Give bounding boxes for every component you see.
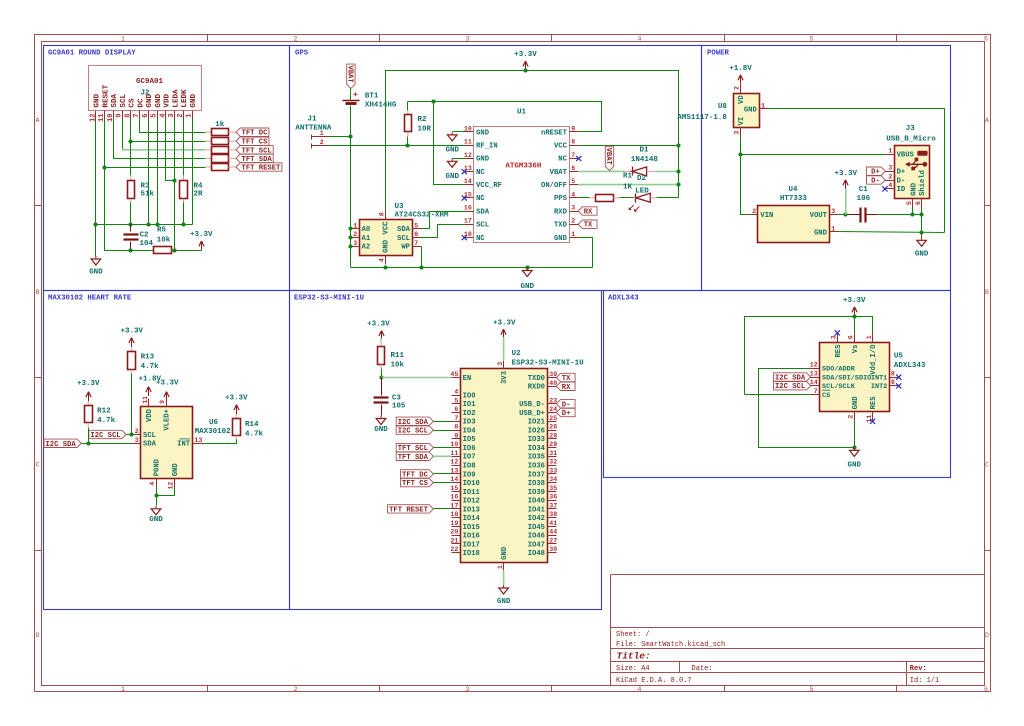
svg-text:12: 12 bbox=[89, 113, 97, 122]
svg-text:VDD: VDD bbox=[164, 93, 172, 107]
svg-text:IO11: IO11 bbox=[463, 489, 481, 497]
svg-text:AMS1117-1.8: AMS1117-1.8 bbox=[677, 114, 727, 122]
svg-text:29: 29 bbox=[549, 441, 557, 448]
svg-text:30: 30 bbox=[549, 546, 557, 553]
svg-text:J1: J1 bbox=[307, 116, 317, 124]
svg-text:ANTTENNA: ANTTENNA bbox=[295, 125, 332, 133]
wire VDD pin4 to LEDA net bbox=[166, 119, 175, 181]
wire U3 WP to gnd rail bbox=[421, 247, 423, 268]
svg-text:R5: R5 bbox=[157, 227, 167, 235]
svg-text:R2: R2 bbox=[418, 116, 428, 124]
svg-text:SDA: SDA bbox=[397, 226, 411, 234]
svg-text:15: 15 bbox=[450, 485, 458, 492]
svg-text:R12: R12 bbox=[97, 407, 111, 415]
svg-text:106: 106 bbox=[857, 195, 871, 203]
svg-text:Sheet: /: Sheet: / bbox=[616, 631, 650, 639]
section box GPS bbox=[290, 46, 702, 291]
capacitor C2 104 bbox=[124, 225, 154, 251]
wire RESET net down to RC bbox=[105, 168, 154, 251]
junction VCC_RF branch bbox=[431, 99, 435, 103]
svg-text:Shield: Shield bbox=[919, 170, 927, 196]
svg-text:13: 13 bbox=[810, 371, 818, 378]
svg-text:2: 2 bbox=[734, 86, 741, 90]
svg-text:DC: DC bbox=[137, 98, 145, 108]
power +3.3V r11 bbox=[367, 321, 390, 339]
mcu U2 ESP32-S3-MINI-1U bbox=[450, 350, 584, 571]
wire RESET pin11 to row bbox=[105, 119, 206, 168]
global label TFT CS esp bbox=[401, 478, 434, 488]
wire R4 bottom to gnd rail bbox=[183, 203, 185, 225]
svg-text:B: B bbox=[36, 289, 40, 296]
wire INT to R14 bbox=[202, 440, 237, 444]
svg-text:3: 3 bbox=[135, 437, 139, 444]
junction LEDA bottom bbox=[172, 248, 176, 252]
svg-text:14: 14 bbox=[810, 379, 818, 386]
svg-text:RXD0: RXD0 bbox=[528, 384, 545, 392]
svg-text:2: 2 bbox=[177, 113, 185, 117]
svg-text:VBAT: VBAT bbox=[604, 148, 612, 166]
svg-text:1: 1 bbox=[571, 231, 575, 238]
junction VOUT +3.3V bbox=[843, 212, 847, 216]
svg-text:Title:: Title: bbox=[617, 651, 651, 662]
no-connect adxl INT1 bbox=[896, 375, 901, 380]
svg-text:ESP32-S3-MINI-1U: ESP32-S3-MINI-1U bbox=[512, 359, 585, 367]
svg-text:VIN: VIN bbox=[760, 212, 773, 220]
wire DC pin7 to row bbox=[140, 119, 206, 133]
svg-text:+3.3V: +3.3V bbox=[156, 380, 179, 388]
svg-text:U4: U4 bbox=[788, 186, 798, 194]
svg-text:40: 40 bbox=[549, 380, 557, 387]
svg-text:LED: LED bbox=[635, 188, 649, 196]
wire TFT SCL to pin bbox=[434, 447, 452, 449]
svg-text:SDO/ADDR: SDO/ADDR bbox=[822, 366, 856, 374]
svg-text:U1: U1 bbox=[517, 109, 527, 117]
svg-text:TFT SDA: TFT SDA bbox=[398, 454, 429, 462]
svg-text:R13: R13 bbox=[141, 353, 155, 361]
svg-text:GC9A01 ROUND DISPLAY: GC9A01 ROUND DISPLAY bbox=[48, 49, 136, 57]
series resistor 1k row TFT CS bbox=[205, 138, 236, 145]
svg-text:12: 12 bbox=[450, 459, 458, 466]
svg-text:10k: 10k bbox=[157, 236, 171, 244]
power +3.3V vled bbox=[156, 380, 179, 401]
svg-text:28: 28 bbox=[549, 432, 557, 439]
wire gps gnd rail bbox=[351, 267, 593, 269]
wire R13 to SCL bbox=[131, 374, 133, 435]
svg-text:IO13: IO13 bbox=[463, 506, 480, 514]
svg-text:TFT DC: TFT DC bbox=[242, 130, 269, 138]
svg-text:File: SmartWatch.kicad_sch: File: SmartWatch.kicad_sch bbox=[616, 641, 725, 649]
svg-text:R1: R1 bbox=[623, 173, 633, 181]
power flag VBAT at D1 bbox=[604, 146, 614, 170]
power +3.3V r12 bbox=[77, 380, 100, 401]
svg-text:6: 6 bbox=[454, 406, 458, 413]
svg-text:USB_D+: USB_D+ bbox=[519, 410, 545, 418]
svg-text:1: 1 bbox=[497, 565, 504, 569]
svg-text:IO41: IO41 bbox=[528, 506, 546, 514]
svg-text:A2: A2 bbox=[362, 244, 371, 252]
svg-text:NC: NC bbox=[558, 156, 567, 164]
svg-text:IO45: IO45 bbox=[528, 524, 545, 532]
global label TFT SDA bbox=[236, 154, 273, 164]
svg-text:4.7k: 4.7k bbox=[97, 417, 116, 425]
svg-text:GC9A01: GC9A01 bbox=[136, 78, 164, 86]
svg-text:ADXL343: ADXL343 bbox=[894, 362, 926, 370]
connector J1 ANTENNA bbox=[295, 116, 332, 149]
svg-text:GND: GND bbox=[852, 396, 860, 410]
resistor R14 4.7k bbox=[233, 414, 264, 440]
svg-text:20: 20 bbox=[450, 529, 458, 536]
no-connect U1 pin7 bbox=[576, 156, 581, 161]
series resistor 1k row TFT RESET bbox=[205, 164, 236, 171]
wire battery minus down bbox=[350, 106, 352, 268]
wire D2 to rail bbox=[657, 197, 679, 199]
svg-text:4: 4 bbox=[454, 389, 458, 396]
svg-text:10k: 10k bbox=[391, 362, 405, 370]
svg-text:+3.3V: +3.3V bbox=[190, 231, 213, 239]
capacitor C1 106 bbox=[848, 186, 878, 222]
svg-text:A1: A1 bbox=[362, 235, 371, 243]
svg-text:9: 9 bbox=[159, 400, 166, 404]
svg-text:3: 3 bbox=[353, 240, 357, 247]
svg-text:ID: ID bbox=[897, 186, 906, 194]
module U1 ATGM336H bbox=[464, 109, 579, 243]
ground symbol u2 bbox=[497, 585, 511, 606]
resistor R1 1K bbox=[579, 173, 633, 202]
global label I2C SDA esp bbox=[396, 417, 433, 427]
wire ON/OFF to rail (pale) bbox=[578, 184, 679, 186]
svg-text:7: 7 bbox=[571, 152, 575, 159]
svg-text:33: 33 bbox=[549, 467, 557, 474]
svg-text:9: 9 bbox=[454, 432, 458, 439]
power +3.3V adxl bbox=[843, 297, 866, 316]
wire TFT RESET to pin bbox=[434, 508, 452, 510]
svg-text:14: 14 bbox=[450, 476, 458, 483]
svg-text:GND: GND bbox=[848, 462, 862, 470]
svg-text:10: 10 bbox=[450, 441, 458, 448]
series resistor 1k row TFT DC bbox=[205, 129, 236, 136]
svg-text:11: 11 bbox=[142, 396, 149, 404]
svg-text:11: 11 bbox=[450, 450, 458, 457]
global label I2C SCL esp bbox=[396, 426, 433, 436]
wire GND pin12 down bbox=[95, 119, 97, 257]
wire J3 shield pin down bbox=[921, 208, 923, 233]
junction J3 gnd5 bbox=[910, 212, 914, 216]
section box POWER bbox=[702, 46, 951, 291]
svg-text:5: 5 bbox=[810, 36, 814, 43]
wire J1 pin1 to battery net bbox=[329, 136, 351, 138]
svg-text:31: 31 bbox=[549, 450, 557, 457]
svg-text:Vs: Vs bbox=[852, 345, 860, 354]
svg-text:C1: C1 bbox=[859, 186, 869, 194]
svg-text:GND: GND bbox=[383, 239, 391, 253]
svg-text:22: 22 bbox=[450, 546, 458, 553]
svg-text:GND: GND bbox=[476, 129, 490, 137]
wire GND pin6 bbox=[148, 119, 150, 225]
svg-text:8: 8 bbox=[454, 424, 458, 431]
svg-text:10: 10 bbox=[464, 125, 472, 132]
svg-text:U6: U6 bbox=[209, 419, 219, 427]
svg-text:1: 1 bbox=[866, 335, 873, 339]
svg-text:5: 5 bbox=[414, 222, 418, 229]
svg-text:4: 4 bbox=[571, 191, 575, 198]
svg-text:GND: GND bbox=[374, 426, 388, 434]
gnd flag U1 pin10 bbox=[445, 132, 464, 155]
svg-text:8: 8 bbox=[378, 212, 385, 216]
svg-text:LEDA: LEDA bbox=[172, 89, 180, 108]
svg-text:U3: U3 bbox=[395, 203, 405, 211]
svg-text:PPS: PPS bbox=[554, 195, 568, 203]
wire I2C SDA to pin bbox=[434, 421, 452, 423]
svg-text:5: 5 bbox=[454, 397, 458, 404]
global label TFT SCL bbox=[236, 146, 273, 156]
global label I2C SDA adxl bbox=[774, 373, 811, 383]
svg-text:24: 24 bbox=[549, 406, 557, 413]
svg-text:C: C bbox=[985, 462, 989, 469]
wire U4 gnd row bbox=[839, 232, 945, 233]
svg-text:+3.3V: +3.3V bbox=[493, 319, 516, 327]
svg-text:IO47: IO47 bbox=[528, 541, 545, 549]
svg-text:J3: J3 bbox=[906, 125, 916, 133]
svg-text:IO18: IO18 bbox=[463, 550, 480, 558]
svg-text:37: 37 bbox=[549, 502, 557, 509]
svg-text:A: A bbox=[985, 117, 989, 124]
svg-text:12: 12 bbox=[810, 362, 818, 369]
svg-text:Rev:: Rev: bbox=[910, 665, 927, 673]
svg-text:VOUT: VOUT bbox=[810, 212, 828, 220]
svg-text:IO10: IO10 bbox=[463, 480, 480, 488]
svg-text:U2: U2 bbox=[512, 350, 522, 358]
svg-text:D2: D2 bbox=[637, 175, 647, 183]
svg-text:3: 3 bbox=[466, 36, 470, 43]
svg-text:Size: A4: Size: A4 bbox=[616, 665, 650, 673]
svg-text:7: 7 bbox=[414, 240, 418, 247]
svg-text:41: 41 bbox=[549, 520, 557, 527]
title block bbox=[611, 575, 985, 686]
wire U6 grounds bbox=[156, 488, 158, 496]
svg-text:1: 1 bbox=[831, 225, 835, 232]
wire VOUT to C1 bbox=[839, 214, 848, 216]
resistor R2 10R bbox=[405, 102, 432, 146]
wire VBAT row (pale) bbox=[578, 170, 624, 172]
junction +3.3V gps bbox=[523, 68, 527, 72]
svg-text:23: 23 bbox=[549, 397, 557, 404]
svg-text:RES: RES bbox=[835, 344, 843, 358]
svg-text:19: 19 bbox=[450, 520, 458, 527]
svg-text:BT1: BT1 bbox=[365, 92, 379, 100]
svg-text:CS: CS bbox=[822, 392, 830, 400]
svg-text:SDA: SDA bbox=[111, 93, 119, 107]
svg-text:44: 44 bbox=[549, 529, 557, 536]
power +3.3V r14 bbox=[225, 395, 248, 414]
svg-text:TX: TX bbox=[584, 222, 593, 230]
wire TFT SDA to pin bbox=[433, 455, 451, 457]
svg-text:3: 3 bbox=[497, 362, 504, 366]
svg-text:6: 6 bbox=[848, 335, 855, 339]
svg-text:GPS: GPS bbox=[295, 49, 309, 57]
power +3.3V gps bbox=[514, 51, 537, 70]
global label TFT RESET esp bbox=[388, 505, 434, 515]
svg-text:MAX30102: MAX30102 bbox=[195, 428, 232, 436]
wire I2C SDA to pin bbox=[82, 443, 132, 445]
svg-text:1: 1 bbox=[761, 102, 765, 109]
svg-text:25: 25 bbox=[549, 415, 557, 422]
svg-text:8: 8 bbox=[124, 113, 132, 117]
wire +3.3V to 3V3 (pale) bbox=[503, 337, 505, 360]
global label I2C SDA max bbox=[44, 439, 81, 449]
junction R12 sda bbox=[86, 441, 90, 445]
svg-text:51k: 51k bbox=[141, 190, 155, 198]
svg-text:3: 3 bbox=[888, 165, 892, 172]
wire +3.3V to Vs bbox=[854, 317, 856, 334]
svg-text:8: 8 bbox=[571, 139, 575, 146]
resistor R13 4.7k bbox=[128, 347, 160, 374]
wire VCC_RF branch bbox=[434, 102, 465, 185]
svg-text:12: 12 bbox=[168, 482, 175, 490]
svg-text:GND: GND bbox=[155, 93, 163, 107]
svg-text:45: 45 bbox=[450, 371, 458, 378]
svg-text:ON/OFF: ON/OFF bbox=[541, 182, 567, 190]
svg-text:INT: INT bbox=[177, 441, 191, 449]
svg-text:ESP32-S3-MINI-1U: ESP32-S3-MINI-1U bbox=[294, 294, 364, 302]
svg-text:1N4148: 1N4148 bbox=[631, 156, 659, 164]
svg-text:I2C SCL: I2C SCL bbox=[398, 428, 428, 436]
global label D+ power bbox=[867, 167, 886, 177]
svg-text:INT2: INT2 bbox=[871, 383, 887, 391]
svg-text:39: 39 bbox=[549, 371, 557, 378]
svg-text:RES: RES bbox=[870, 396, 878, 410]
junctions gps gnd rail bbox=[383, 265, 387, 269]
svg-text:NC: NC bbox=[476, 169, 485, 177]
svg-text:VLED+: VLED+ bbox=[164, 409, 172, 431]
svg-text:+3.3V: +3.3V bbox=[514, 51, 537, 59]
svg-text:2: 2 bbox=[353, 231, 357, 238]
svg-text:3: 3 bbox=[831, 208, 835, 215]
svg-text:C: C bbox=[36, 462, 40, 469]
svg-text:36: 36 bbox=[549, 494, 557, 501]
svg-text:IO1: IO1 bbox=[463, 401, 477, 409]
svg-text:IO39: IO39 bbox=[528, 489, 545, 497]
svg-text:C2: C2 bbox=[140, 232, 150, 240]
junctions on gnd rail bbox=[93, 222, 97, 226]
junction ON/OFF rail bbox=[676, 182, 680, 186]
accelerometer U5 ADXL343 bbox=[810, 334, 926, 423]
no-connect U1 pin18 bbox=[462, 235, 467, 240]
svg-text:PGND: PGND bbox=[154, 458, 162, 476]
wire SDA pin10 to row bbox=[114, 119, 206, 159]
svg-text:6: 6 bbox=[915, 201, 922, 205]
power +3.3V r13 bbox=[120, 328, 143, 347]
svg-text:VBUS: VBUS bbox=[897, 152, 915, 160]
svg-text:A0: A0 bbox=[362, 226, 371, 234]
svg-text:VCC: VCC bbox=[383, 221, 391, 235]
svg-text:GND: GND bbox=[744, 106, 758, 114]
wire EN to U2 (pale) bbox=[381, 377, 451, 379]
svg-text:IO17: IO17 bbox=[463, 541, 480, 549]
svg-text:GND: GND bbox=[94, 93, 102, 107]
wire U1 GND pin1 bbox=[579, 238, 593, 268]
svg-text:IO9: IO9 bbox=[463, 471, 476, 479]
svg-text:+3.3V: +3.3V bbox=[843, 297, 866, 305]
svg-text:5: 5 bbox=[906, 201, 913, 205]
svg-text:1: 1 bbox=[353, 222, 357, 229]
wire LEDA pin3 down to +3.3V rail bbox=[174, 119, 176, 251]
svg-text:18: 18 bbox=[450, 511, 458, 518]
wire VBUS row bbox=[741, 154, 886, 156]
global label D- power bbox=[867, 176, 886, 186]
svg-text:4: 4 bbox=[638, 686, 642, 693]
svg-text:GND: GND bbox=[172, 463, 180, 477]
svg-text:IO15: IO15 bbox=[463, 524, 480, 532]
svg-text:IO36: IO36 bbox=[528, 463, 545, 471]
svg-text:IO34: IO34 bbox=[528, 445, 546, 453]
svg-text:4: 4 bbox=[888, 182, 892, 189]
series resistor 1k row TFT SDA bbox=[205, 155, 236, 163]
svg-text:SDA: SDA bbox=[143, 441, 157, 449]
global label RX esp bbox=[556, 382, 575, 392]
svg-text:IO21: IO21 bbox=[528, 419, 546, 427]
wire U1 VCC to +3.3V rail bbox=[579, 145, 679, 147]
svg-text:R14: R14 bbox=[245, 421, 259, 429]
resistor R3 51k bbox=[128, 142, 155, 203]
svg-text:11: 11 bbox=[464, 139, 472, 146]
svg-text:GND: GND bbox=[910, 182, 918, 196]
svg-text:IO3: IO3 bbox=[463, 419, 476, 427]
svg-text:IO35: IO35 bbox=[528, 454, 545, 462]
svg-text:2: 2 bbox=[752, 208, 756, 215]
wire SCL pin9 to row (pale) bbox=[122, 119, 124, 150]
svg-text:10R: 10R bbox=[418, 125, 432, 133]
svg-text:IO8: IO8 bbox=[463, 463, 476, 471]
svg-text:+3.3V: +3.3V bbox=[77, 380, 100, 388]
svg-text:TFT CS: TFT CS bbox=[402, 480, 429, 488]
junction R13 scl bbox=[129, 432, 133, 436]
wire rail to CS pin bbox=[745, 394, 811, 396]
wire +3.3V drop (pale) bbox=[845, 189, 847, 215]
svg-text:D-: D- bbox=[897, 177, 906, 185]
wire U2 gnd down (pale) bbox=[503, 571, 505, 585]
svg-text:IO37: IO37 bbox=[528, 471, 545, 479]
svg-text:3: 3 bbox=[734, 131, 741, 135]
global label I2C SCL adxl bbox=[774, 382, 811, 392]
power flag VBAT gps bbox=[346, 64, 356, 88]
svg-text:2: 2 bbox=[294, 686, 298, 693]
svg-text:+3.3V: +3.3V bbox=[225, 395, 248, 403]
no-connect U1 pin13 bbox=[462, 169, 467, 174]
svg-text:C3: C3 bbox=[392, 395, 402, 403]
svg-text:2: 2 bbox=[848, 415, 855, 419]
svg-text:D1: D1 bbox=[639, 147, 649, 155]
svg-text:16: 16 bbox=[464, 205, 472, 212]
svg-text:IO6: IO6 bbox=[463, 445, 476, 453]
svg-text:NC: NC bbox=[476, 235, 485, 243]
svg-text:SCL: SCL bbox=[476, 222, 489, 230]
global label TFT SCL esp bbox=[396, 443, 433, 453]
wire U8 gnd to right rail bbox=[769, 109, 945, 233]
wire CS pin8 to row bbox=[131, 119, 206, 142]
svg-text:GND: GND bbox=[190, 93, 198, 107]
wire SDO/ADDR to gnd bbox=[759, 369, 855, 448]
svg-text:GND: GND bbox=[89, 269, 103, 277]
wire TFT CS to pin bbox=[434, 482, 452, 484]
global label D- esp bbox=[556, 400, 575, 410]
svg-text:TFT RESET: TFT RESET bbox=[389, 506, 429, 514]
regulator U4 HT7333 bbox=[750, 186, 839, 243]
svg-text:D: D bbox=[985, 632, 989, 639]
wire C1 to J3 gnd pins bbox=[878, 214, 922, 216]
wire TFT DC to pin bbox=[434, 473, 452, 475]
svg-text:GND: GND bbox=[814, 229, 828, 237]
svg-text:Vdd_I/O: Vdd_I/O bbox=[870, 344, 878, 375]
